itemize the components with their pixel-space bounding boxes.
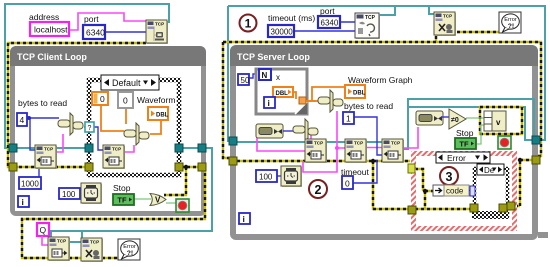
- svg-text:bytes to read: bytes to read: [18, 98, 67, 108]
- svg-text:0: 0: [100, 94, 105, 104]
- svg-text:V: V: [155, 196, 161, 205]
- svg-text:DBL: DBL: [156, 113, 169, 119]
- svg-text:30000: 30000: [271, 28, 294, 37]
- svg-text:bytes to read: bytes to read: [344, 101, 393, 111]
- svg-text:code: code: [446, 187, 464, 196]
- svg-text:6340: 6340: [86, 28, 105, 38]
- svg-text:Stop: Stop: [456, 128, 474, 138]
- svg-text:4: 4: [20, 115, 25, 125]
- svg-text:2: 2: [315, 183, 322, 197]
- svg-text:Waveform Graph: Waveform Graph: [348, 75, 413, 85]
- svg-text:≠0: ≠0: [451, 117, 459, 124]
- svg-text:1: 1: [245, 17, 252, 31]
- svg-text:50: 50: [241, 76, 250, 85]
- svg-text:0: 0: [345, 179, 350, 189]
- svg-text:Default: Default: [112, 78, 141, 88]
- svg-text:TCP Server Loop: TCP Server Loop: [237, 52, 310, 62]
- svg-text:port: port: [84, 14, 99, 24]
- svg-text:v: v: [496, 118, 501, 127]
- svg-text:Stop: Stop: [113, 183, 131, 193]
- svg-text:?: ?: [88, 125, 92, 132]
- svg-text:3: 3: [446, 170, 453, 184]
- svg-text:timeout (ms): timeout (ms): [268, 13, 315, 23]
- svg-text:DBL: DBL: [353, 91, 366, 97]
- svg-text:i: i: [22, 197, 24, 207]
- svg-text:i: i: [243, 214, 245, 224]
- svg-text:x: x: [276, 73, 280, 82]
- svg-text:1: 1: [346, 114, 351, 124]
- svg-text:i: i: [268, 98, 270, 108]
- svg-text:100: 100: [62, 190, 76, 199]
- svg-text:port: port: [320, 6, 335, 16]
- svg-text:1000: 1000: [21, 180, 39, 189]
- svg-text:N: N: [262, 71, 268, 80]
- svg-text:localhost: localhost: [34, 25, 68, 35]
- svg-text:TCP Client Loop: TCP Client Loop: [17, 52, 87, 62]
- svg-text:100: 100: [259, 173, 273, 182]
- svg-text:Waveform: Waveform: [137, 95, 175, 105]
- svg-text:Error: Error: [447, 153, 466, 163]
- svg-text:0: 0: [123, 96, 128, 106]
- svg-text:Q: Q: [40, 225, 47, 235]
- svg-text:address: address: [29, 12, 59, 22]
- svg-text:De: De: [484, 166, 495, 175]
- svg-text:TCP: TCP: [365, 15, 376, 21]
- svg-text:6340: 6340: [321, 19, 339, 28]
- svg-text:DBL: DBL: [276, 91, 289, 97]
